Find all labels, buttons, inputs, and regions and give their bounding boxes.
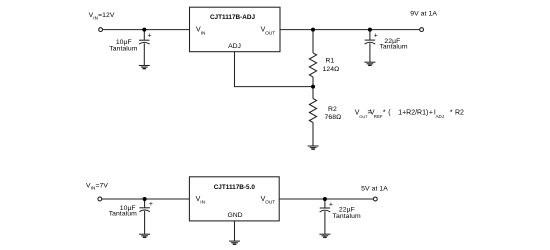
svg-text:1+R2/R1): 1+R2/R1) [398, 110, 428, 117]
svg-text:+: + [374, 33, 378, 40]
svg-text:Tantalum: Tantalum [379, 43, 407, 50]
svg-text:*: * [383, 110, 386, 117]
svg-text:REF: REF [374, 114, 383, 119]
svg-text:9V at 1A: 9V at 1A [410, 11, 437, 18]
svg-text:CJT1117B-5.0: CJT1117B-5.0 [214, 184, 256, 191]
svg-text:124Ω: 124Ω [323, 66, 340, 73]
svg-text:R2: R2 [328, 106, 337, 113]
svg-text:ADJ: ADJ [436, 114, 444, 119]
svg-text:768Ω: 768Ω [325, 114, 342, 121]
svg-text:+: + [329, 202, 333, 209]
svg-text:VIN=12V: VIN=12V [89, 12, 115, 20]
svg-text:+: + [149, 201, 153, 208]
svg-text:R1: R1 [326, 58, 335, 65]
svg-text:*: * [450, 110, 453, 117]
svg-text:5V at 1A: 5V at 1A [361, 186, 388, 193]
svg-text:Tantalum: Tantalum [333, 213, 361, 220]
svg-text:GND: GND [227, 212, 242, 219]
svg-text:+: + [429, 110, 433, 117]
svg-text:ADJ: ADJ [228, 43, 241, 50]
svg-text:+: + [148, 33, 152, 40]
svg-text:Tantalum: Tantalum [109, 210, 137, 217]
svg-text:VIN=7V: VIN=7V [86, 182, 108, 190]
svg-text:Tantalum: Tantalum [109, 46, 137, 53]
svg-text:CJT1117B-ADJ: CJT1117B-ADJ [210, 14, 256, 21]
svg-text:R2: R2 [455, 110, 464, 117]
